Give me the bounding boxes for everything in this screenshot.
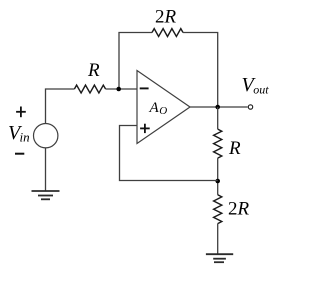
svg-text:R: R (87, 60, 100, 81)
svg-text:O: O (159, 105, 167, 117)
ground (source) (32, 191, 60, 199)
wire: R to op-amp inverting input (106, 88, 137, 90)
resistor 2R divider zigzag (214, 195, 222, 224)
wire: divider 2R to ground (217, 224, 219, 255)
minus sign of source (15, 153, 24, 155)
svg-text:A: A (149, 100, 160, 116)
ground (divider) (206, 254, 233, 262)
wire: non-inverting feedback path (120, 126, 218, 181)
svg-text:out: out (253, 82, 269, 96)
svg-text:2R: 2R (155, 7, 177, 28)
node dot output (215, 105, 220, 110)
svg-text:2R: 2R (228, 199, 250, 220)
wire: feedback top-right segment (183, 33, 218, 108)
resistor 2R feedback zigzag (152, 29, 183, 37)
svg-text:in: in (20, 130, 30, 145)
op-amp AO triangle (137, 71, 190, 144)
wire: feedback top-left segment (119, 33, 152, 90)
node dot inverting input (116, 87, 121, 92)
terminal Vout open circle (248, 105, 252, 109)
resistor R input zigzag (74, 85, 105, 93)
op-amp minus input symbol (140, 87, 149, 89)
wire: output node down to divider R (217, 107, 219, 129)
wire: divider R to mid node (217, 158, 219, 195)
wire: source top to R (46, 89, 75, 124)
resistor R divider zigzag (214, 129, 222, 158)
wire: source bottom to ground (45, 148, 47, 191)
plus sign of source (16, 107, 26, 118)
op-amp plus input symbol (140, 124, 150, 133)
node dot divider mid (215, 179, 220, 184)
wire: op-amp output (190, 106, 248, 108)
voltage source Vin circle (34, 124, 58, 148)
svg-text:R: R (228, 138, 241, 159)
